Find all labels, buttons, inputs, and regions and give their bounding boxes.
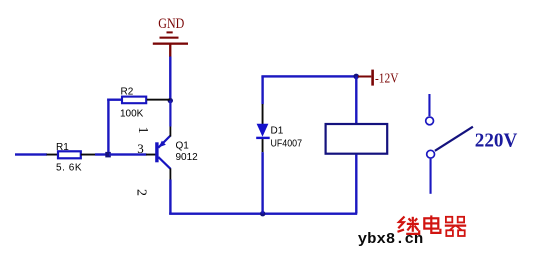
svg-text:220V: 220V: [475, 129, 518, 151]
wire input left: [15, 153, 47, 155]
wire diode branch top: [261, 76, 263, 124]
wire Q1 collector pin (down): [169, 169, 171, 215]
svg-text:2: 2: [133, 189, 148, 196]
node: R1 / R2 / Q1 base junction: [105, 152, 111, 158]
svg-text:GND: GND: [158, 16, 184, 32]
relay coil K1: [326, 124, 388, 154]
switch contact: lower terminal circle: [427, 150, 435, 158]
svg-text:100K: 100K: [120, 109, 144, 120]
svg-text:UF4007: UF4007: [271, 138, 303, 149]
svg-text:D1: D1: [271, 126, 284, 137]
resistor R2: [120, 87, 170, 120]
wire relay bottom pin: [355, 155, 357, 214]
wire bottom horizontal: [169, 213, 357, 215]
wire R1 to junction: [95, 153, 108, 155]
node: GND / R2 / Q1 emitter junction: [168, 98, 173, 103]
glyph 继: [398, 217, 420, 234]
wire R2 left vertical: [107, 99, 109, 156]
wire R2 top left segment: [107, 99, 122, 101]
watermark 继电器 (drawn glyphs): [398, 215, 467, 236]
svg-text:5. 6K: 5. 6K: [56, 162, 82, 173]
glyph 器: [445, 217, 466, 236]
wire Q1 emitter pin (up): [169, 101, 171, 137]
wire Q1 base pin stub: [146, 154, 156, 156]
wire junction to Q1 base: [109, 153, 147, 155]
svg-text:Q1: Q1: [176, 141, 190, 152]
svg-text:R1: R1: [56, 142, 69, 153]
svg-text:1: 1: [135, 127, 150, 134]
svg-text:-12V: -12V: [375, 70, 399, 85]
switch blade: [435, 127, 473, 151]
switch contact: lower terminal wire: [430, 159, 432, 194]
power port -12V: [358, 70, 399, 86]
glyph 电: [424, 215, 440, 233]
svg-text:ybx8.cn: ybx8.cn: [358, 231, 424, 248]
transistor Q1 9012: [155, 136, 198, 169]
wire relay top pin: [355, 76, 357, 124]
power port GND: [153, 16, 188, 57]
switch contact: upper terminal circle: [426, 117, 434, 125]
wire top horizontal: [261, 75, 357, 77]
node: top-right junction to -12V: [353, 74, 359, 80]
svg-text:3: 3: [137, 141, 144, 156]
diode D1 UF4007: [256, 124, 302, 150]
wire diode branch bottom: [261, 139, 263, 214]
resistor R1: [47, 142, 96, 174]
switch contact: upper terminal wire: [428, 94, 430, 116]
node: D1 / relay bottom junction: [260, 211, 265, 216]
wire GND stem: [169, 57, 171, 102]
svg-text:9012: 9012: [176, 152, 199, 163]
svg-text:R2: R2: [121, 87, 134, 98]
